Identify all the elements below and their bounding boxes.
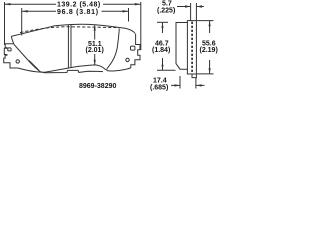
svg-text:(1.84): (1.84) — [152, 47, 170, 54]
svg-text:(2.19): (2.19) — [200, 47, 218, 54]
svg-text:5.7: 5.7 — [162, 0, 172, 7]
svg-text:17.4: 17.4 — [153, 77, 167, 84]
svg-text:(.685): (.685) — [150, 84, 168, 91]
svg-text:(2.01): (2.01) — [86, 47, 104, 54]
svg-text:8969-38290: 8969-38290 — [79, 83, 116, 90]
svg-text:139.2 (5.48): 139.2 (5.48) — [57, 2, 101, 9]
svg-text:96.8 (3.81): 96.8 (3.81) — [57, 9, 99, 16]
svg-text:(.225): (.225) — [157, 8, 175, 15]
